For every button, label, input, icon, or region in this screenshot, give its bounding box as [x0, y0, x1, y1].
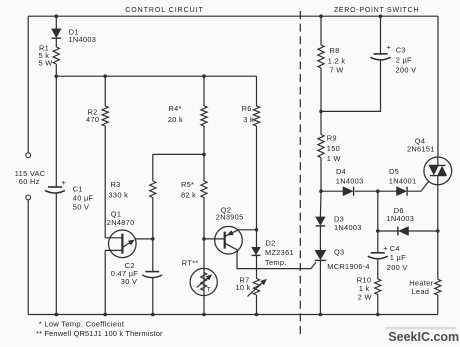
wire Q1 emitter [135, 238, 153, 240]
SCR Q3 [315, 250, 326, 260]
node top bus / R8 [319, 14, 323, 18]
wire bottom bus [28, 314, 437, 316]
resistor R4 [201, 106, 207, 126]
svg-text:150: 150 [327, 144, 340, 153]
svg-text:200 V: 200 V [387, 263, 408, 272]
svg-text:ZERO-POINT SWITCH: ZERO-POINT SWITCH [334, 7, 419, 14]
label R3 330k [109, 180, 129, 200]
label R7 10k [236, 275, 251, 292]
node bottom bus / C1 [55, 313, 59, 317]
watermark ghost [385, 327, 456, 330]
wire right rail Q4 to D6 [437, 185, 439, 231]
svg-text:+: + [387, 42, 392, 51]
resistor R3 [150, 181, 156, 198]
wire Q1 B1 down [104, 250, 106, 314]
node second bus / R2 [103, 74, 107, 78]
wire jog R3-R4 [153, 153, 204, 155]
svg-text:Lead: Lead [412, 287, 430, 296]
svg-text:MCR1906-4: MCR1906-4 [327, 262, 370, 271]
svg-text:CONTROL CIRCUIT: CONTROL CIRCUIT [125, 7, 204, 14]
transistor Q2 2N3905 [204, 226, 242, 254]
wire C3 branch [321, 16, 381, 111]
diode D4 [343, 187, 354, 196]
resistor R5 [201, 181, 207, 198]
svg-text:3 k: 3 k [243, 115, 254, 124]
svg-text:D5: D5 [389, 167, 399, 176]
label ZERO-POINT SWITCH [334, 7, 419, 14]
label D1 1N4003 [69, 28, 97, 44]
triac Q4 2N6151 [424, 157, 452, 185]
svg-text:RT**: RT** [182, 258, 199, 267]
transistor Q1 2N4870 [105, 230, 136, 258]
diode D6 [398, 227, 409, 236]
svg-text:** Fenwell QR51J1 100 k Thermi: ** Fenwell QR51J1 100 k Thermistor [36, 329, 163, 338]
capacitor C2 [142, 272, 162, 278]
node R9 / D4 / D3 [319, 189, 323, 193]
diode D1 [52, 29, 62, 38]
wire R2 branch [104, 76, 106, 238]
note low temp coefficient [39, 320, 125, 329]
node bottom bus / Q3 [319, 313, 323, 317]
node R8 / C3 / R9 [319, 110, 323, 114]
note thermistor [36, 329, 163, 338]
svg-text:R6: R6 [242, 104, 252, 113]
label D2 MZ2361 Temp. [265, 238, 294, 267]
svg-text:+: + [383, 244, 388, 253]
svg-text:1.2 k: 1.2 k [328, 57, 346, 66]
svg-text:50 V: 50 V [73, 202, 89, 211]
label R8 1.2k 7W [328, 46, 346, 74]
label Heater Lead [409, 278, 433, 296]
terminal AC bottom [26, 195, 31, 200]
node D5 line / C4 branch [376, 189, 380, 193]
svg-text:T: T [207, 286, 211, 293]
label 115 VAC 60 Hz [15, 169, 46, 186]
svg-text:SeekIC.com: SeekIC.com [388, 330, 459, 344]
wire top bus [28, 15, 438, 17]
svg-text:200 V: 200 V [396, 65, 417, 74]
node top bus / C3 [379, 14, 383, 18]
node R6 / Q2 emitter / D2 [255, 228, 259, 232]
label D3 1N4003 [334, 215, 362, 233]
svg-text:Heater: Heater [409, 278, 433, 287]
svg-text:R5*: R5* [181, 180, 194, 189]
label C3 2uF 200V [396, 45, 417, 74]
svg-text:10 k: 10 k [236, 283, 251, 292]
svg-text:MZ2361: MZ2361 [265, 248, 294, 257]
resistor R9 [318, 135, 324, 158]
wire C4 branch [377, 191, 379, 314]
wire left AC rail lower [27, 200, 29, 315]
svg-text:2N4870: 2N4870 [107, 218, 135, 227]
label Q4 2N6151 [407, 136, 435, 153]
svg-text:82 k: 82 k [181, 190, 196, 199]
svg-text:2N3905: 2N3905 [216, 213, 244, 222]
node R5 / Q2 base / RT [202, 237, 206, 241]
label R4* 20k [168, 104, 183, 124]
wire second bus [56, 75, 256, 77]
node C4 branch / D6 [376, 229, 380, 233]
node top bus / D1 branch [55, 14, 59, 18]
wire D6 line [378, 230, 438, 232]
wire D4-D5 line [321, 181, 429, 191]
diode D3 [316, 217, 326, 226]
svg-text:C1: C1 [73, 184, 83, 193]
svg-text:R8: R8 [330, 46, 340, 55]
wire left AC rail upper [27, 16, 29, 153]
svg-text:1N4003: 1N4003 [336, 177, 364, 186]
svg-text:C3: C3 [396, 45, 406, 54]
label D4 1N4003 [336, 167, 364, 185]
svg-text:1 µF: 1 µF [390, 253, 406, 262]
wire heater branch [437, 231, 439, 315]
label R5* 82k [181, 180, 196, 199]
label R9 150 1W [327, 134, 341, 163]
resistor R6 [253, 106, 259, 126]
watermark SeekIC.com [388, 330, 459, 344]
heater resistance [435, 279, 441, 295]
svg-text:Temp.: Temp. [265, 258, 287, 267]
label D5 1N4001 [389, 167, 417, 185]
capacitor C4 [368, 244, 388, 259]
svg-text:1N4001: 1N4001 [389, 177, 417, 186]
resistor R1 [53, 47, 59, 64]
diode D5 [397, 187, 408, 196]
svg-text:2 W: 2 W [358, 293, 372, 302]
label Q1 2N4870 [107, 210, 135, 227]
wire R9 branch [320, 111, 322, 191]
svg-text:C4: C4 [390, 244, 400, 253]
label C4 1uF 200V [387, 244, 408, 272]
wire C1 branch [55, 76, 57, 314]
node second bus / R4 [202, 74, 206, 78]
resistor R10 [375, 279, 381, 295]
svg-text:* Low Temp. Coefficient: * Low Temp. Coefficient [39, 320, 125, 329]
label R10 1k 2W [357, 276, 372, 302]
svg-text:+: + [62, 178, 67, 187]
capacitor C1 [45, 178, 67, 193]
thermistor RT [190, 268, 217, 295]
svg-text:2N6151: 2N6151 [407, 145, 435, 154]
label D6 1N4003 [387, 206, 415, 223]
label R1 5k 5W [39, 43, 53, 67]
resistor R8 [318, 45, 324, 68]
wire R8 branch [320, 16, 322, 111]
wire R6 branch [256, 76, 258, 314]
svg-text:D4: D4 [336, 167, 346, 176]
svg-text:Q3: Q3 [334, 248, 344, 257]
dashed separator [299, 11, 301, 335]
svg-text:1 W: 1 W [327, 154, 341, 163]
label C1 40uF 50V [73, 184, 94, 211]
node bottom bus / C2 [151, 313, 155, 317]
node bottom bus / RT [202, 313, 206, 317]
svg-text:470: 470 [86, 115, 99, 124]
wire D1-R1 branch [55, 16, 57, 76]
svg-text:20 k: 20 k [168, 115, 183, 124]
svg-text:2 µF: 2 µF [396, 56, 412, 65]
rheostat R7 [248, 279, 267, 297]
node bottom bus / R7 [255, 313, 259, 317]
wire Q2 emitter to R6 [237, 229, 257, 231]
resistor R2 [102, 106, 108, 126]
svg-text:1N4003: 1N4003 [334, 223, 362, 232]
svg-text:R4*: R4* [169, 104, 182, 113]
svg-text:5 W: 5 W [39, 58, 53, 67]
label CONTROL CIRCUIT [125, 7, 204, 14]
wire right rail through Q4 [437, 157, 439, 185]
diode D2 [252, 247, 261, 255]
wire Q2 collector / gate line [237, 250, 316, 268]
terminal AC top [26, 153, 31, 158]
node second bus / C1 [55, 74, 59, 78]
svg-text:1N4003: 1N4003 [387, 214, 415, 223]
svg-text:1N4003: 1N4003 [69, 35, 97, 44]
wire R4-R5 branch [203, 76, 205, 314]
label RT** [182, 258, 199, 267]
wire D3-Q3 branch [319, 191, 322, 314]
capacitor C3 [371, 42, 392, 60]
label C2 0.47uF 30V [111, 261, 138, 286]
svg-text:40 µF: 40 µF [73, 193, 94, 202]
label R6 3k [242, 104, 254, 124]
label R2 470 [86, 107, 99, 124]
node Q1 emitter / R3 / C2 [151, 237, 155, 241]
wire R3 branch [152, 154, 154, 314]
svg-text:D3: D3 [334, 215, 344, 224]
label Q3 MCR1906-4 [327, 248, 370, 272]
svg-text:D2: D2 [266, 238, 276, 247]
label Q2 2N3905 [216, 206, 244, 222]
svg-text:60 Hz: 60 Hz [19, 177, 40, 186]
wire right rail upper [437, 16, 439, 157]
svg-text:7 W: 7 W [330, 65, 344, 74]
svg-text:330 k: 330 k [109, 191, 129, 200]
svg-text:R9: R9 [327, 134, 337, 143]
node bottom bus / Q1 B1 [103, 313, 107, 317]
svg-text:30 V: 30 V [121, 277, 137, 286]
svg-text:R3: R3 [111, 180, 121, 189]
node jog / R4-R5 [202, 153, 206, 157]
node right rail / D6 [436, 229, 440, 233]
node bottom bus / R10 [376, 313, 380, 317]
